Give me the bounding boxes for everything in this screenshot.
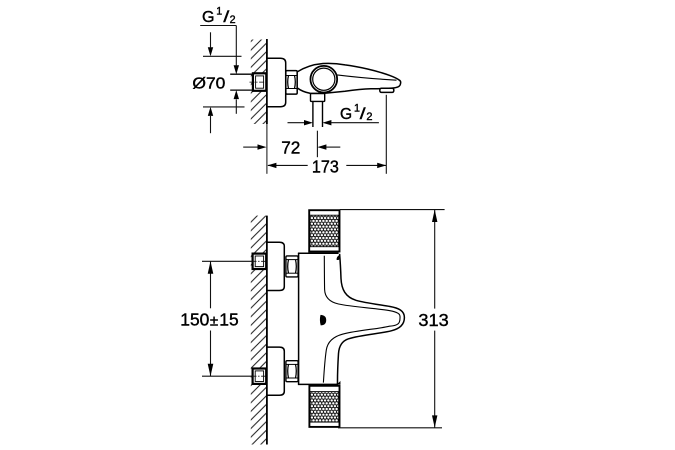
- svg-text:313: 313: [418, 310, 448, 330]
- svg-text:150: 150: [180, 310, 209, 330]
- svg-text:72: 72: [281, 138, 300, 158]
- svg-text:±: ±: [210, 313, 218, 330]
- svg-text:15: 15: [219, 310, 238, 330]
- svg-text:1: 1: [216, 5, 222, 17]
- svg-text:Ø70: Ø70: [192, 74, 225, 92]
- svg-text:2: 2: [230, 14, 236, 26]
- svg-text:G: G: [340, 106, 352, 123]
- svg-text:G: G: [202, 8, 215, 26]
- svg-text:173: 173: [312, 156, 339, 176]
- svg-text:2: 2: [366, 111, 372, 123]
